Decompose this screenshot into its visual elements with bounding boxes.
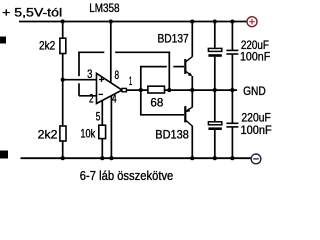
node bottom rail / BD138 collector — [190, 156, 194, 160]
op-amp - mark — [99, 93, 104, 95]
node top rail / C2 — [230, 19, 234, 23]
node top rail / divider — [61, 19, 65, 23]
svg-text:GND: GND — [243, 84, 266, 98]
svg-text:2: 2 — [89, 92, 94, 106]
svg-text:10k: 10k — [80, 126, 96, 140]
wire divider branch x=62.7 — [62, 22, 64, 159]
node bottom rail / 10k — [100, 156, 104, 160]
node output rail / emitters — [190, 88, 194, 92]
node top rail / BD137 collector — [190, 19, 194, 23]
svg-text:2k2: 2k2 — [38, 128, 58, 142]
wire mid output/GND rail — [126, 89, 237, 91]
capacitor C2 100nF (top) — [226, 22, 238, 91]
svg-text:100nF: 100nF — [240, 50, 270, 64]
wire feedback left vertical (with crossover gap at pin3 wire) — [78, 83, 80, 96]
svg-text:100nF: 100nF — [241, 123, 272, 137]
node divider junction — [61, 78, 65, 82]
node mid rail / C2 — [230, 88, 234, 92]
node bottom rail / divider — [61, 156, 65, 160]
transistor Q1 BD137 — [185, 22, 193, 91]
wire pin4 to bottom rail — [110, 96, 112, 158]
svg-text:6-7 láb összekötve: 6-7 láb összekötve — [80, 168, 174, 183]
terminal + (top right) — [247, 17, 257, 27]
node top rail / C1 — [213, 19, 217, 23]
left edge artifact square (bottom) — [0, 151, 8, 159]
wire 10k to bottom rail — [101, 139, 103, 159]
node top rail / pin8 — [109, 19, 113, 23]
wire pin8 supply — [110, 22, 112, 83]
terminal - (bottom right) — [251, 154, 261, 164]
wire pin5 to 10k — [101, 100, 103, 125]
svg-text:8: 8 — [115, 68, 120, 82]
wire base drive vertical x=140.8 — [140, 67, 142, 115]
wire BD137 base (with crossover gap at feedback vertical) — [140, 66, 167, 68]
transistor Q2 BD138 — [185, 90, 193, 158]
svg-text:4: 4 — [112, 92, 117, 106]
capacitor C3 220uF (bottom) — [208, 90, 221, 158]
capacitor C4 100nF (bottom) — [226, 90, 238, 158]
node output pin1 — [139, 88, 143, 92]
svg-text:68: 68 — [150, 95, 163, 109]
node bottom rail / C3 — [213, 156, 217, 160]
op-amp output square pin1 — [122, 88, 126, 91]
svg-text:5: 5 — [96, 109, 101, 123]
op-amp U1 triangle — [97, 73, 123, 103]
svg-text:+ 5,5V-tól: + 5,5V-tól — [2, 6, 62, 20]
left edge artifact square (top) — [0, 37, 6, 44]
svg-text:LM358: LM358 — [89, 1, 120, 15]
op-amp + mark — [99, 77, 104, 82]
wire pin3 input — [63, 79, 97, 81]
node mid rail / C1 — [213, 88, 217, 92]
svg-text:3: 3 — [87, 67, 93, 81]
capacitor C1 220uF (top) — [208, 22, 221, 91]
node output rail right of 68 — [167, 88, 171, 92]
resistor R1 2k2 (top) — [60, 38, 66, 53]
resistor R2 2k2 (bottom) — [60, 126, 66, 141]
wire top +V rail — [19, 21, 247, 23]
wire bottom -V rail — [21, 157, 252, 159]
wire feedback right vertical down to output rail — [168, 52, 170, 91]
wire feedback top horizontal (with crossover gap at pin8 wire) — [78, 51, 104, 53]
node bottom rail / pin4 — [109, 156, 113, 160]
node bottom rail / C4 — [230, 156, 234, 160]
wire BD138 base — [140, 114, 184, 116]
svg-text:2k2: 2k2 — [39, 38, 56, 52]
svg-text:BD138: BD138 — [155, 128, 189, 142]
resistor R4 68 — [148, 86, 165, 93]
svg-text:1: 1 — [129, 74, 133, 88]
wire pin2 input — [79, 95, 97, 97]
svg-text:BD137: BD137 — [158, 32, 189, 46]
resistor R3 10k — [99, 125, 106, 138]
